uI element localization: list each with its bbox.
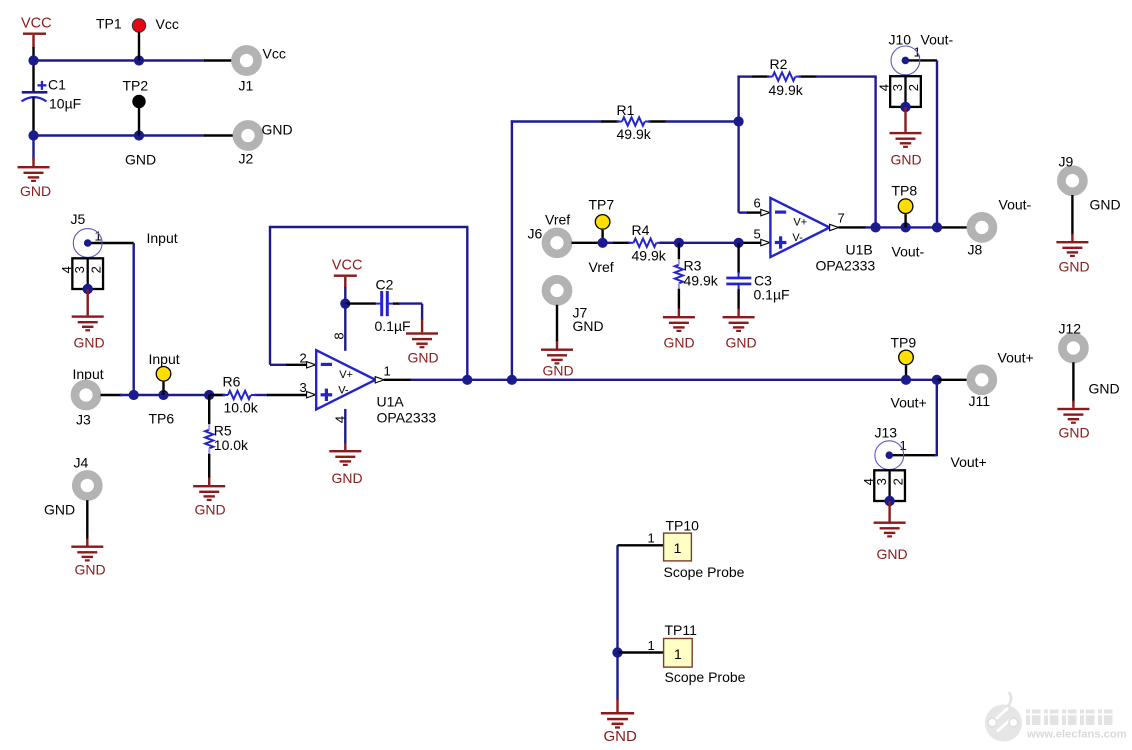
svg-text:Vout-: Vout- [892,244,925,260]
svg-text:VCC: VCC [21,16,52,32]
svg-text:J11: J11 [969,393,991,409]
svg-text:R4: R4 [632,222,650,238]
svg-text:GND: GND [408,350,439,366]
svg-text:J2: J2 [239,151,254,167]
svg-text:Vref: Vref [589,259,614,275]
svg-text:TP7: TP7 [589,197,615,213]
svg-text:OPA2333: OPA2333 [377,410,437,426]
svg-text:49.9k: 49.9k [769,82,804,98]
svg-text:GND: GND [604,728,638,745]
svg-text:Scope Probe: Scope Probe [665,669,746,685]
svg-text:6: 6 [754,196,761,211]
svg-text:3: 3 [72,266,87,273]
svg-text:GND: GND [20,183,51,199]
svg-text:1: 1 [674,540,682,556]
svg-text:10.0k: 10.0k [214,437,249,453]
svg-text:2: 2 [890,478,905,485]
svg-text:TP8: TP8 [892,183,918,199]
svg-text:www.elecfans.com: www.elecfans.com [1026,729,1127,741]
svg-text:2: 2 [906,84,921,91]
svg-text:GND: GND [262,122,293,138]
svg-text:1: 1 [384,364,391,379]
svg-text:GND: GND [664,335,695,351]
svg-text:V+: V+ [339,369,353,381]
svg-text:J12: J12 [1059,321,1082,337]
svg-text:J9: J9 [1059,154,1074,170]
svg-text:GND: GND [877,546,908,562]
svg-text:Vout+: Vout+ [891,395,927,411]
svg-text:49.9k: 49.9k [632,248,667,264]
svg-text:Input: Input [73,366,104,382]
svg-text:GND: GND [891,152,922,168]
svg-text:J5: J5 [71,211,86,227]
svg-text:GND: GND [75,562,106,578]
svg-text:GND: GND [1059,259,1090,275]
svg-text:1: 1 [648,638,655,653]
svg-text:TP9: TP9 [891,335,917,351]
svg-text:1: 1 [674,646,682,662]
svg-text:3: 3 [874,478,889,485]
svg-text:GND: GND [44,502,75,518]
svg-text:GND: GND [726,335,757,351]
svg-text:GND: GND [543,363,574,379]
svg-text:GND: GND [195,502,226,518]
svg-text:TP2: TP2 [123,78,149,94]
svg-text:GND: GND [125,152,156,168]
svg-text:0.1µF: 0.1µF [375,318,411,334]
svg-text:V-: V- [792,232,803,244]
svg-text:R3: R3 [684,258,702,274]
svg-text:GND: GND [1089,381,1120,397]
svg-text:GND: GND [332,470,363,486]
svg-text:TP10: TP10 [666,518,700,534]
svg-text:Vref: Vref [545,212,570,228]
svg-text:1: 1 [648,531,655,546]
svg-text:J1: J1 [239,78,254,94]
svg-text:10µF: 10µF [49,96,81,112]
svg-text:TP11: TP11 [665,622,698,638]
svg-text:8: 8 [332,332,347,339]
svg-text:V+: V+ [793,217,807,229]
svg-text:V-: V- [338,384,349,396]
svg-text:2: 2 [300,350,307,365]
svg-text:49.9k: 49.9k [617,126,652,142]
svg-text:GND: GND [74,335,105,351]
svg-text:J10: J10 [889,32,912,48]
svg-text:Input: Input [147,230,178,246]
svg-text:7: 7 [838,211,845,226]
svg-text:C2: C2 [376,277,394,293]
svg-text:R6: R6 [223,374,241,390]
svg-text:3: 3 [890,84,905,91]
svg-text:TP1: TP1 [96,16,122,32]
svg-text:J13: J13 [875,425,898,441]
svg-text:Vout+: Vout+ [998,350,1034,366]
svg-text:J8: J8 [968,242,983,258]
svg-text:Input: Input [149,351,180,367]
svg-text:J3: J3 [76,412,91,428]
svg-text:U1B: U1B [846,242,873,258]
svg-text:Vcc: Vcc [263,46,286,62]
svg-text:TP6: TP6 [149,411,175,427]
svg-text:5: 5 [754,227,761,242]
svg-text:OPA2333: OPA2333 [816,258,876,274]
svg-text:4: 4 [333,416,348,423]
svg-text:J6: J6 [528,226,543,242]
svg-text:J4: J4 [74,455,89,471]
svg-text:10.0k: 10.0k [224,400,259,416]
svg-text:0.1µF: 0.1µF [754,287,790,303]
svg-text:VCC: VCC [332,258,363,274]
svg-text:49.9k: 49.9k [684,272,719,288]
svg-text:Vout+: Vout+ [951,454,987,470]
svg-text:GND: GND [1059,425,1090,441]
svg-text:GND: GND [573,318,604,334]
svg-text:Vcc: Vcc [156,16,179,32]
svg-text:GND: GND [1090,197,1121,213]
svg-text:C1: C1 [48,77,66,93]
svg-text:R2: R2 [770,56,788,72]
svg-text:2: 2 [88,266,103,273]
svg-text:Vout-: Vout- [921,32,954,48]
svg-text:R1: R1 [617,102,635,118]
svg-text:Scope Probe: Scope Probe [664,564,745,580]
svg-text:3: 3 [300,380,307,395]
svg-text:U1A: U1A [377,394,405,410]
svg-text:Vout-: Vout- [999,197,1032,213]
